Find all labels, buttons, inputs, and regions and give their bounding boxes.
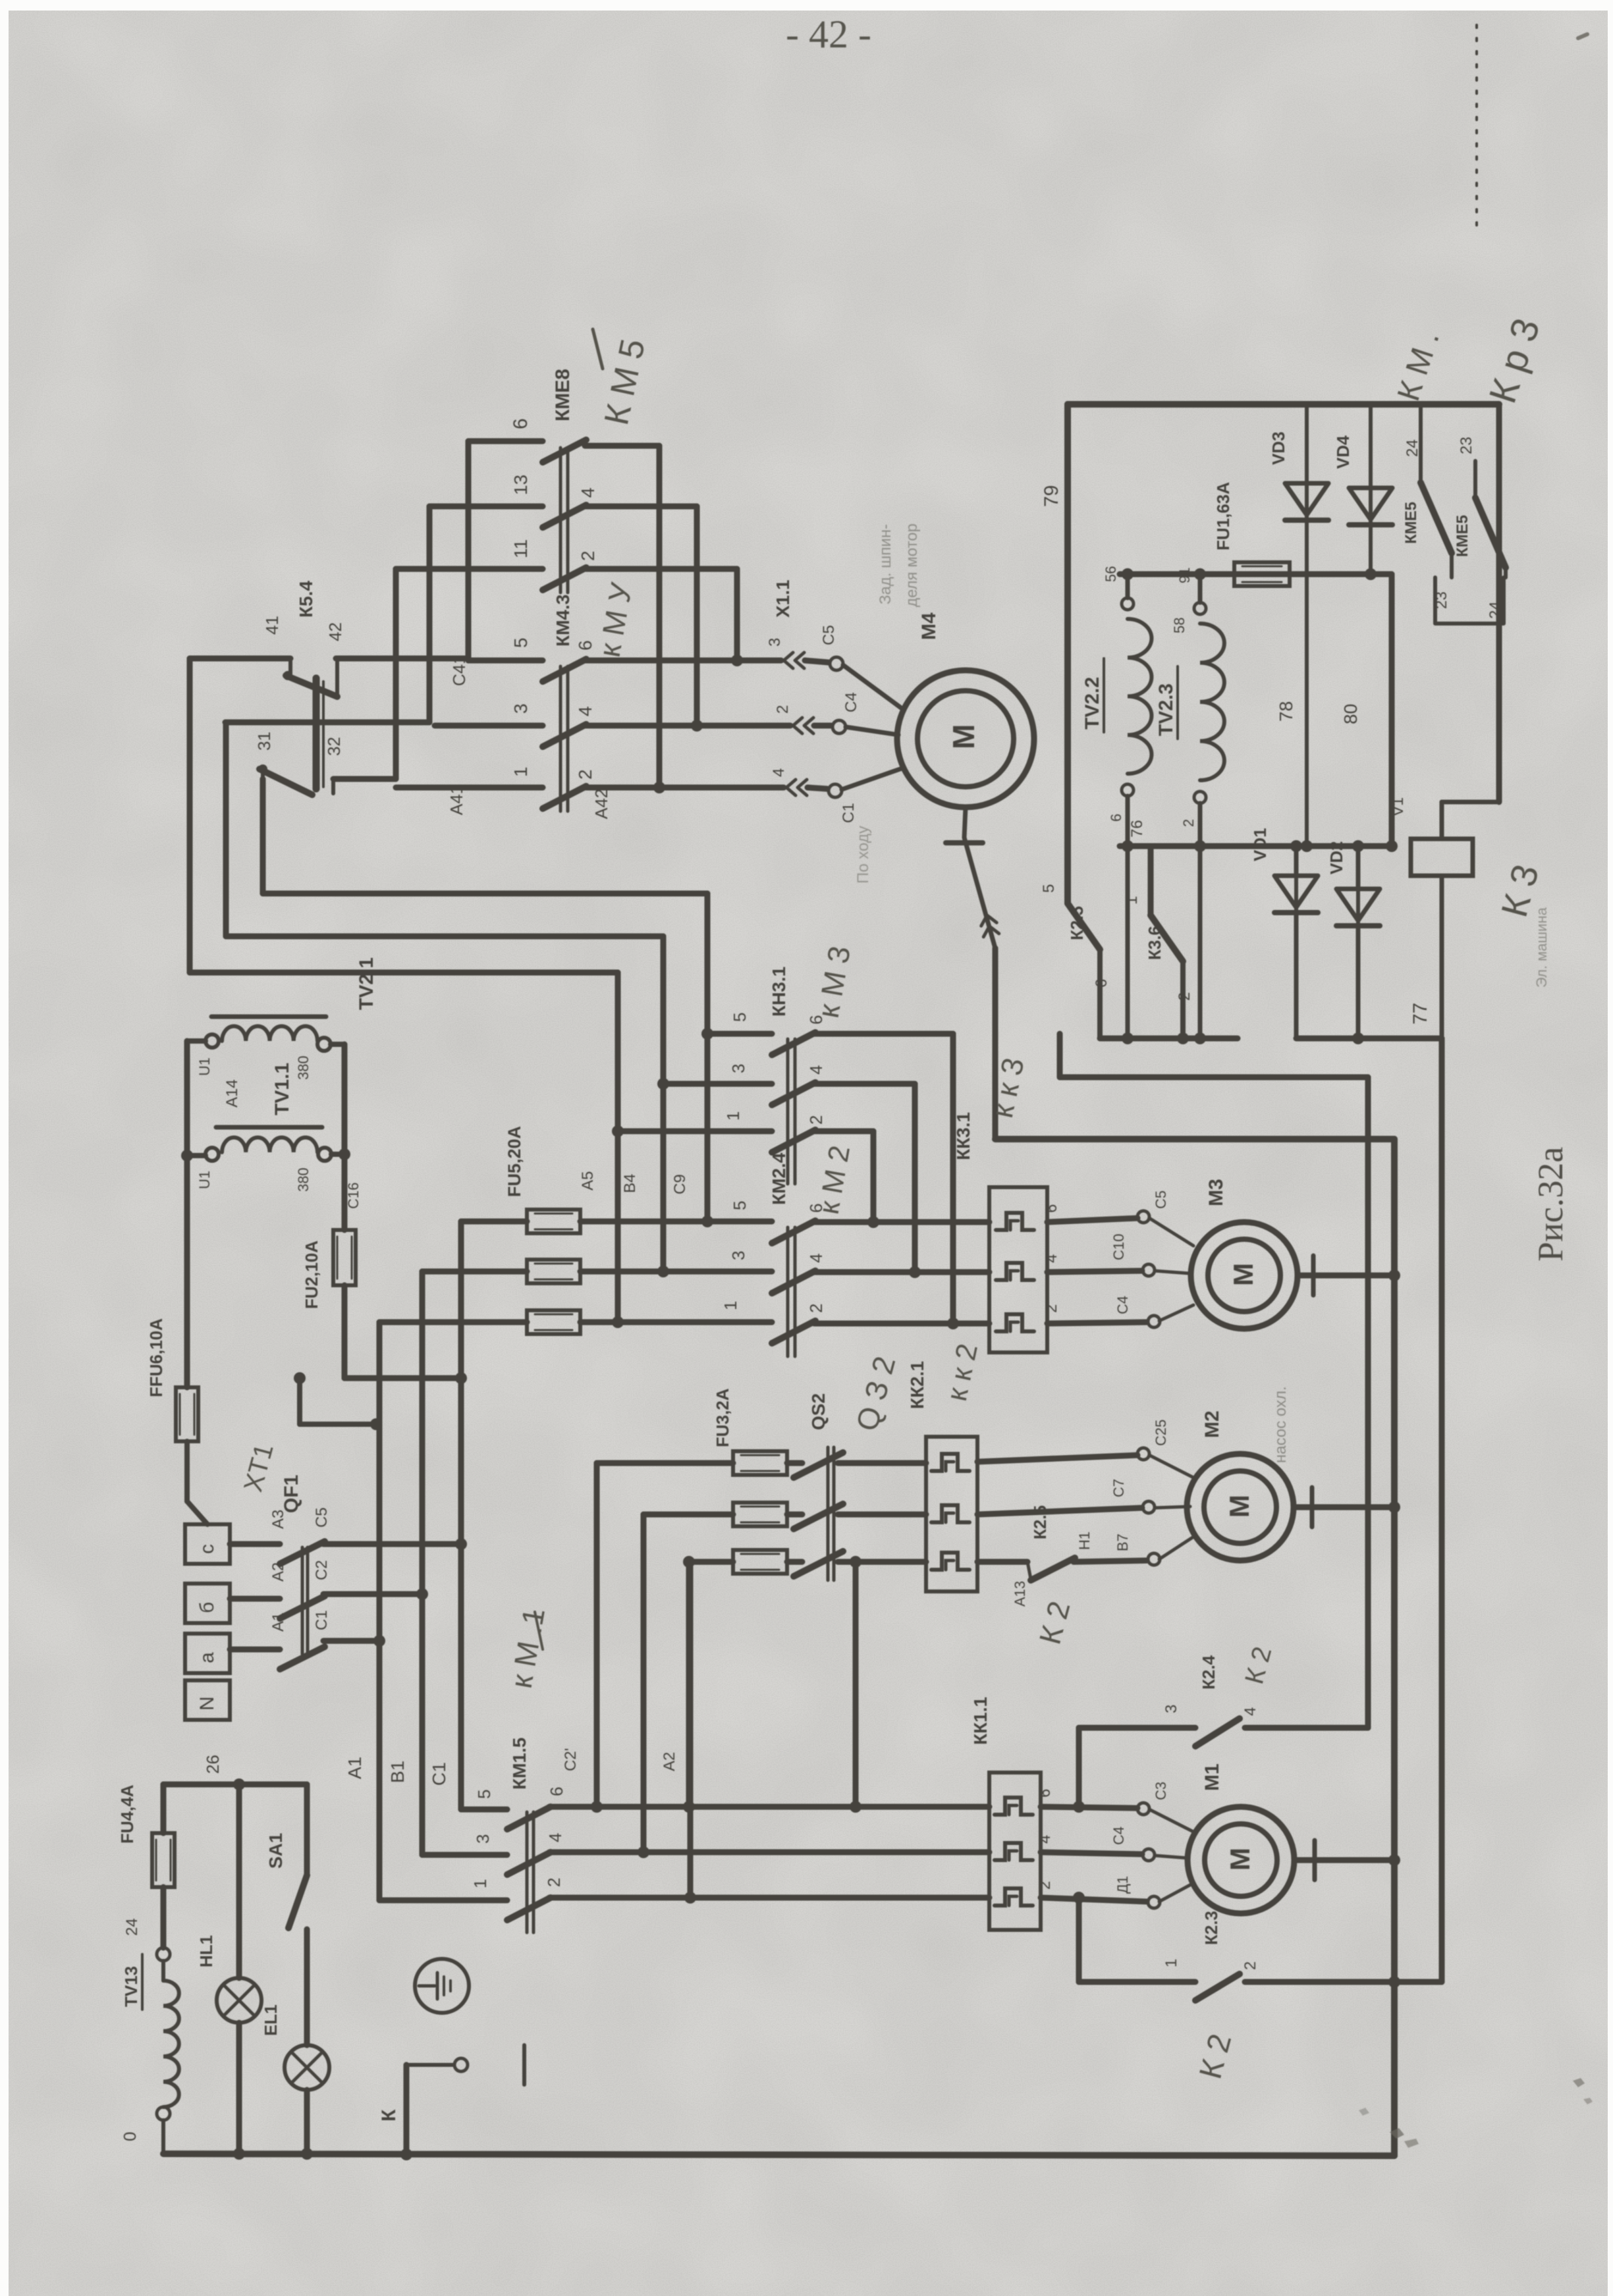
label M1 [1201, 1763, 1223, 1791]
wire QF1 row C [230, 1541, 280, 1547]
contact KM1 row A [507, 1898, 551, 1920]
svg-text:SА1: SА1 [265, 1833, 286, 1869]
pins K2.5 control [1040, 884, 1110, 988]
wire K2.4 out [1245, 1725, 1368, 1731]
wire B1 vertical [420, 1271, 425, 1855]
wire M4 ground lead [964, 807, 995, 1139]
svg-text:КН3.1: КН3.1 [769, 967, 789, 1017]
svg-text:С1: С1 [840, 803, 858, 823]
svg-text:К2.5: К2.5 [1030, 1505, 1050, 1539]
contact K2.5 [1027, 1558, 1075, 1580]
wire to FU4 [161, 1784, 167, 1833]
label TV1.1 [271, 1063, 293, 1115]
svg-text:А3: А3 [269, 1510, 287, 1529]
svg-text:С16: С16 [345, 1183, 362, 1209]
svg-text:деля мотор: деля мотор [903, 523, 921, 607]
lamp HL1 [217, 1978, 261, 2023]
transformer TV2.1 winding [205, 1027, 331, 1051]
note near M4 [854, 523, 921, 884]
label KMU handwritten [592, 579, 639, 659]
svg-text:К: К [378, 2109, 400, 2122]
svg-text:с: с [196, 1544, 218, 1554]
svg-text:2: 2 [1036, 1881, 1054, 1890]
svg-text:6: 6 [547, 1787, 566, 1796]
wire lamp top [163, 1782, 307, 1788]
svg-text:1: 1 [510, 766, 531, 777]
wire TV2.2 stubs [1126, 574, 1130, 1038]
svg-text:11: 11 [510, 539, 531, 558]
svg-text:78: 78 [1276, 701, 1296, 722]
label K3 handwritten [1493, 860, 1546, 921]
junction dots lower [1122, 840, 1398, 852]
label HL1 [196, 1935, 216, 1967]
KK1 element 2 [995, 1843, 1033, 1860]
label K2.4 [1199, 1655, 1218, 1690]
label FU2 10A [302, 1241, 321, 1309]
svg-text:6: 6 [806, 1204, 826, 1213]
svg-text:ТV13: ТV13 [121, 1966, 141, 2007]
label KM1 handwritten [504, 1605, 551, 1691]
wire FFU6 to XT1 [187, 1441, 207, 1524]
svg-text:2: 2 [544, 1878, 564, 1887]
svg-text:1: 1 [470, 1879, 490, 1888]
wire FU4 down [161, 1887, 167, 1948]
pin 2 KM5 [578, 550, 598, 561]
label A14 [223, 1079, 241, 1108]
svg-text:2: 2 [1242, 1962, 1259, 1970]
bus right outer [1391, 1139, 1398, 2156]
wire M3 leads [1149, 1218, 1193, 1321]
svg-text:3: 3 [473, 1834, 493, 1844]
fuse FU2 10A [333, 1230, 356, 1285]
svg-text:С4: С4 [1110, 1827, 1127, 1845]
pin 31 [254, 732, 274, 751]
thermal KK1 box [989, 1773, 1041, 1930]
contact KM5 row13 [543, 505, 586, 527]
svg-text:С5: С5 [1153, 1190, 1169, 1209]
wire KM5 row13 [429, 504, 543, 510]
svg-text:А14: А14 [223, 1079, 241, 1108]
svg-text:TV2.1: TV2.1 [356, 957, 377, 1010]
coil TV13 [163, 1981, 179, 2107]
label V1 [1389, 797, 1407, 816]
label KM handwritten corner [1391, 327, 1446, 405]
svg-text:3: 3 [766, 638, 784, 647]
transformer TV1.1 core [216, 1125, 322, 1130]
ground bar M3 [1311, 1256, 1316, 1295]
pins QF1 [269, 1507, 331, 1632]
ground bar M4 [946, 840, 983, 845]
label FU3 2A [713, 1388, 732, 1447]
wire KM1 row C out [549, 1804, 989, 1810]
svg-text:31: 31 [254, 732, 274, 751]
stray marks [1359, 34, 1593, 2148]
svg-text:3: 3 [510, 703, 531, 714]
transformer TV2.2 winding [1122, 598, 1151, 796]
wire KM3 row1 [618, 1129, 772, 1135]
wire K2.3 out [1245, 1979, 1442, 1985]
fuse FFU6 10A [176, 1387, 198, 1441]
label KME5 b [1454, 515, 1471, 557]
contactor KM2 pole bars [788, 1227, 795, 1356]
svg-text:В4: В4 [621, 1174, 639, 1193]
svg-text:4: 4 [1242, 1707, 1259, 1716]
terminal C3 [830, 657, 904, 710]
motor M1 [1188, 1807, 1294, 1913]
svg-text:QS2: QS2 [808, 1393, 829, 1430]
terminal circles M2 [1137, 1448, 1160, 1565]
label 79 [1041, 485, 1062, 507]
svg-text:М: М [1224, 1495, 1255, 1518]
label VD4 [1333, 435, 1353, 469]
junction M2 bus [1388, 1501, 1400, 1513]
label XT1 handwritten [238, 1441, 279, 1495]
svg-text:79: 79 [1041, 485, 1062, 507]
svg-text:С2': С2' [562, 1748, 580, 1771]
labels K2.5 pins [1012, 1532, 1093, 1607]
wire loop outer [190, 658, 618, 1322]
contactor KM3 pole bars [788, 1039, 795, 1184]
junction TV1.1 right [339, 1148, 350, 1160]
wire QF1 row B [230, 1596, 280, 1602]
svg-text:U1: U1 [196, 1057, 213, 1076]
control bus top [1068, 401, 1499, 408]
fuse FU5.2 20A [527, 1260, 580, 1283]
pin 6 KMU [575, 640, 595, 651]
svg-text:5: 5 [510, 637, 531, 648]
label TV2.3 [1155, 666, 1178, 739]
svg-text:41: 41 [262, 616, 282, 635]
svg-text:2: 2 [1176, 992, 1193, 1001]
svg-text:6: 6 [1036, 1789, 1054, 1798]
contact K2.3 [1195, 1974, 1240, 2000]
svg-text:QF1: QF1 [281, 1475, 302, 1513]
svg-text:4: 4 [806, 1065, 826, 1075]
pin 5 KMU [510, 637, 531, 648]
thermal KK3 box [989, 1187, 1047, 1352]
wire S1 out [333, 776, 396, 782]
dotted fold line [1475, 25, 1478, 229]
svg-text:ТV2.2: ТV2.2 [1081, 677, 1103, 730]
label SA1 [265, 1833, 286, 1869]
wire KMU row1 out to M4 [585, 788, 827, 789]
wire K2.3 row [1079, 1979, 1195, 1985]
wire loop inner [263, 779, 707, 1221]
wire KM5 row13 out [585, 506, 697, 726]
junction dots KM5/KMU outputs [653, 654, 743, 793]
svg-text:М1: М1 [1201, 1763, 1223, 1791]
junction dots fuse line [1122, 568, 1377, 580]
wire KMU row3 out to M4 [585, 723, 831, 729]
junction dots KM3 [612, 1028, 713, 1137]
contact K2.5 control [1068, 903, 1100, 1038]
wire KM5 row11 [396, 566, 543, 572]
pin 32 [324, 737, 344, 756]
wire HL1 drop [236, 1784, 242, 1978]
motor M3 [1191, 1222, 1298, 1329]
wire 1577 segment B [1296, 1036, 1442, 1042]
wire TV right leads [331, 1044, 344, 1154]
pin 4 KM5 [578, 487, 598, 498]
terminal 24 [123, 1918, 170, 1961]
wire KM3 row5 [707, 1031, 772, 1037]
wire KM1 row C in [461, 1807, 507, 1813]
terminal circles M3 [1137, 1211, 1160, 1327]
wire QF1 B out [323, 1591, 422, 1597]
svg-text:32: 32 [324, 737, 344, 756]
junction dot A1 feeder [294, 1372, 382, 1430]
wire KM3 row1 out [814, 1131, 873, 1222]
bus K2.3 riser [1439, 1038, 1445, 1982]
pins KME5 b [1458, 437, 1504, 619]
svg-text:М: М [946, 724, 981, 749]
svg-text:77: 77 [1409, 1003, 1431, 1025]
label M3 [1205, 1179, 1227, 1206]
contact KME5 a [1421, 404, 1452, 577]
pins KME5 a [1404, 439, 1450, 609]
bottom bus [163, 2154, 1394, 2156]
junction dots QF1 [373, 1538, 467, 1647]
wire KM1 row A in [379, 1898, 507, 1904]
label KK1.1 [970, 1697, 991, 1745]
contactor KMU pole bars [560, 666, 568, 811]
thermal KK2 box [926, 1437, 977, 1591]
wire QS2 row1 out [838, 1460, 926, 1466]
svg-text:FFU6,10А: FFU6,10А [146, 1318, 166, 1397]
wire QS2 row2 [787, 1512, 802, 1518]
wire TV13 down [161, 2120, 165, 2154]
svg-text:В7: В7 [1114, 1534, 1131, 1551]
wire SA1 drop [304, 1784, 310, 1875]
wire M1 ground [1294, 1857, 1394, 1863]
note el mashina [1533, 907, 1550, 988]
wire K5.4 left [190, 658, 290, 674]
svg-text:V1: V1 [1389, 797, 1407, 816]
junction K2.3 bus [1388, 1976, 1400, 1988]
fuse FU5.3 20A [527, 1310, 580, 1334]
wire KK3 out 2 [1047, 1271, 1142, 1272]
wire SA1 down [304, 1929, 310, 2045]
junction dots bottom bus [233, 2148, 412, 2160]
transformer TV2.3 winding [1194, 602, 1224, 803]
svg-text:4: 4 [545, 1833, 565, 1842]
svg-text:С7: С7 [1110, 1479, 1127, 1497]
break marks row3 [793, 718, 813, 734]
pin 11 [510, 539, 531, 558]
svg-text:2: 2 [1180, 819, 1197, 827]
contact QS2 row1 [794, 1453, 843, 1478]
wire KK1 out 3 [1041, 1898, 1147, 1902]
svg-text:2: 2 [575, 769, 595, 780]
svg-text:58: 58 [1171, 618, 1188, 633]
svg-text:2: 2 [578, 550, 598, 561]
junction dots segment A [1122, 1032, 1206, 1044]
svg-text:Эл. машина: Эл. машина [1533, 907, 1550, 988]
svg-text:КМ1.5: КМ1.5 [509, 1738, 530, 1790]
svg-text:13: 13 [510, 475, 531, 495]
svg-text:4: 4 [1036, 1835, 1054, 1844]
svg-text:6: 6 [510, 418, 532, 429]
riser to fuse row1 [597, 1463, 733, 1807]
svg-text:VD3: VD3 [1269, 431, 1288, 465]
svg-text:6: 6 [1093, 979, 1110, 988]
label KK2 handwritten [941, 1341, 984, 1404]
svg-text:а: а [196, 1652, 218, 1663]
KK2 element 2 [931, 1505, 970, 1522]
svg-text:Н1: Н1 [1076, 1532, 1093, 1550]
note nasos [1272, 1386, 1290, 1463]
svg-text:24: 24 [123, 1918, 141, 1936]
junction M1 bus [1388, 1854, 1400, 1866]
label A42 [591, 789, 611, 819]
junction dots KM2 rows [612, 1215, 959, 1329]
label TV2.2 [1081, 658, 1104, 732]
wire KM5 row11 out [585, 569, 737, 660]
relay K3 leads [1442, 802, 1499, 1038]
wire QF1 C out [323, 1541, 461, 1547]
svg-text:М: М [1228, 1263, 1259, 1286]
svg-text:80: 80 [1340, 704, 1361, 724]
label KR3 handwritten corner [1481, 313, 1548, 408]
svg-text:А5: А5 [579, 1171, 597, 1190]
svg-text:В1: В1 [387, 1761, 408, 1783]
svg-text:FU1,63А: FU1,63А [1213, 482, 1233, 550]
contact KMU row3 [543, 724, 586, 747]
svg-text:5: 5 [474, 1790, 494, 1799]
junction K2.3 tap [1073, 1892, 1085, 1904]
svg-text:2: 2 [1043, 1304, 1060, 1313]
pin 6 KM5 [510, 418, 532, 429]
label KM1.5 [509, 1738, 530, 1790]
contact K5.4 [283, 660, 337, 697]
svg-text:4: 4 [578, 487, 598, 498]
loop KME5 [1435, 577, 1504, 624]
pin 3 KMU [510, 703, 531, 714]
junction dots KM1 out [591, 1801, 861, 1904]
contact KM2 row3 [772, 1271, 815, 1293]
terminal labels M3 [1110, 1190, 1169, 1314]
pins K2.4 [1162, 1705, 1259, 1716]
svg-text:С4: С4 [1114, 1296, 1131, 1314]
junction TV1.1 left [181, 1150, 193, 1161]
svg-text:А42: А42 [591, 789, 611, 819]
svg-text:VD2: VD2 [1326, 841, 1346, 874]
wire QS2 row2 out [838, 1512, 926, 1518]
wire KM1 row B in [422, 1852, 507, 1858]
svg-text:Х1.1: Х1.1 [773, 579, 793, 618]
contact K bottom [406, 2045, 524, 2154]
svg-text:КМ2.4: КМ2.4 [769, 1152, 789, 1205]
label K2.3 [1201, 1911, 1221, 1945]
wire M1 leads [1149, 1809, 1193, 1902]
svg-text:С9: С9 [671, 1174, 689, 1194]
wire C1 vertical [458, 1221, 464, 1809]
wire EL1 down [304, 2090, 310, 2154]
wire loop middle [226, 722, 663, 1271]
lamp EL1 [285, 2045, 329, 2090]
label 77 [1409, 1003, 1431, 1025]
wire K2.4 tap [1076, 1728, 1082, 1807]
label KM2 handwritten [813, 1143, 856, 1217]
svg-text:U1: U1 [196, 1171, 213, 1189]
svg-text:КК3.1: КК3.1 [953, 1112, 973, 1160]
svg-text:М3: М3 [1205, 1179, 1227, 1206]
svg-text:А1: А1 [269, 1613, 287, 1632]
control left vertical [1064, 404, 1071, 903]
fuse FU4 4A [152, 1833, 175, 1887]
pins TV coils [1103, 566, 1197, 827]
wire fuse line [1120, 572, 1392, 577]
svg-text:М: М [1224, 1848, 1255, 1871]
label QS2 [808, 1393, 829, 1430]
wire KK1 out 2 [1041, 1852, 1142, 1854]
wire KMU row5 out to M4 [585, 660, 829, 662]
fuse FU3.2 2A [733, 1503, 787, 1526]
label X1.1 [773, 579, 793, 618]
label KN3.1 [769, 967, 789, 1017]
terminal box A [185, 1634, 230, 1673]
pin 42 [325, 622, 345, 641]
svg-text:С5: С5 [313, 1507, 331, 1528]
fuse FU1 6.3A [1234, 562, 1290, 586]
svg-text:0: 0 [120, 2132, 140, 2141]
contact QS2 row2 [794, 1504, 843, 1529]
label C41 [449, 654, 469, 686]
switch SA1 [288, 1875, 307, 1928]
svg-text:КМЕ5: КМЕ5 [1454, 515, 1471, 557]
contact KMU row1 [543, 786, 586, 809]
svg-text:N: N [196, 1696, 218, 1711]
label KM5 handwritten [593, 329, 653, 428]
svg-text:380: 380 [295, 1055, 312, 1080]
svg-text:насос охл.: насос охл. [1272, 1386, 1290, 1463]
label K2 handwritten near KK2 [1032, 1597, 1076, 1647]
label M4 [918, 612, 940, 640]
svg-text:2: 2 [806, 1304, 826, 1313]
wire fuse row3 [379, 1320, 772, 1325]
svg-text:24: 24 [1487, 601, 1504, 619]
wire KMU row5 [468, 658, 543, 664]
contact QS2 row3 [794, 1551, 843, 1576]
svg-text:К3.6: К3.6 [1145, 926, 1164, 960]
fuse FU3.3 2A [733, 1550, 787, 1574]
svg-text:Рис.32а: Рис.32а [1531, 1147, 1570, 1262]
svg-text:С1: С1 [313, 1610, 331, 1630]
svg-text:6: 6 [1108, 814, 1124, 822]
svg-text:FU5,20А: FU5,20А [505, 1126, 524, 1197]
label KK2.1 [907, 1361, 927, 1409]
label FFU6 10A [146, 1318, 166, 1397]
svg-text:К2.4: К2.4 [1199, 1655, 1218, 1690]
junction dot fuse row3 [683, 1556, 861, 1568]
terminal C1 [829, 768, 904, 797]
break marks X1.1-3 [784, 653, 804, 668]
svg-text:TV1.1: TV1.1 [271, 1063, 293, 1115]
wire KK2 out 3 [977, 1559, 1027, 1565]
svg-text:26: 26 [203, 1755, 223, 1774]
label KK3 handwritten [985, 1055, 1031, 1121]
wire FU2 down [344, 1285, 461, 1378]
junction dot segment B [1352, 1032, 1364, 1044]
wire KK2 out 2 [977, 1508, 1142, 1514]
wire v601 [393, 569, 399, 779]
label M2 [1201, 1410, 1223, 1438]
wire 77 horizontal [995, 1136, 1394, 1142]
svg-text:FU3,2А: FU3,2А [713, 1388, 732, 1447]
contact KMU row5 [543, 659, 586, 681]
contact KM1 row B [507, 1852, 551, 1875]
wire QS2 row3 out [838, 1559, 926, 1565]
